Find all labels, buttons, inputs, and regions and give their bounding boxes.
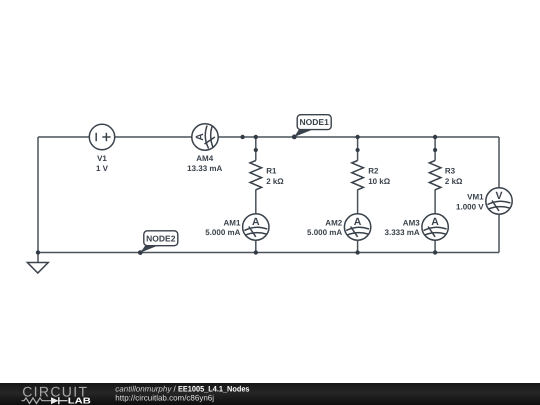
terminal dot: R2 top — [356, 148, 360, 152]
svg-text:A: A — [354, 216, 362, 228]
svg-text:V1: V1 — [97, 154, 107, 163]
svg-text:http://circuitlab.com/c86yn6j: http://circuitlab.com/c86yn6j — [115, 393, 214, 402]
svg-text:A: A — [431, 216, 439, 228]
svg-text:3.333 mA: 3.333 mA — [385, 228, 420, 237]
terminal dot: R1 top — [254, 148, 258, 152]
CircuitLab logo — [22, 384, 91, 405]
svg-text:AM1: AM1 — [224, 219, 241, 228]
resistor R2 — [352, 161, 364, 190]
terminal dot: R3 top — [433, 148, 437, 152]
svg-text:LAB: LAB — [68, 395, 91, 405]
wire: NODE1 to R2 — [357, 137, 359, 161]
svg-text:R3: R3 — [445, 167, 456, 176]
svg-text:VM1: VM1 — [467, 193, 484, 202]
junction: NODE1 at R2 branch — [355, 135, 359, 139]
junction: NODE1 at R3 branch — [433, 135, 437, 139]
wire: left rail — [37, 137, 39, 253]
svg-text:A: A — [252, 216, 260, 228]
svg-text:2 kΩ: 2 kΩ — [266, 177, 284, 186]
svg-text:A: A — [194, 133, 206, 141]
junction: wire joint at AM4 output — [240, 135, 244, 139]
svg-text:10 kΩ: 10 kΩ — [368, 177, 391, 186]
wire: bottom rail (NODE2 row) — [38, 252, 499, 254]
wire: top rail (V1 to NODE1 row) — [38, 136, 499, 138]
junction: NODE1 at R1 branch — [254, 135, 258, 139]
svg-text:cantillonmurphy / EE1005_L4.1_: cantillonmurphy / EE1005_L4.1_Nodes — [115, 385, 250, 394]
resistor R3 — [429, 161, 441, 190]
svg-text:13.33 mA: 13.33 mA — [187, 164, 222, 173]
wire: NODE1 to R3 — [434, 137, 436, 161]
svg-text:2 kΩ: 2 kΩ — [445, 177, 463, 186]
svg-text:R2: R2 — [368, 167, 379, 176]
svg-text:1.000 V: 1.000 V — [456, 202, 484, 211]
wire: NODE1 to R1 — [255, 137, 257, 161]
svg-text:NODE2: NODE2 — [146, 233, 176, 243]
resistor R1 — [250, 161, 262, 190]
voltmeter VM1 — [486, 188, 512, 214]
voltage source V1 — [89, 124, 114, 149]
svg-text:5.000 mA: 5.000 mA — [205, 228, 240, 237]
node NODE2 callout — [138, 231, 178, 255]
svg-text:AM4: AM4 — [196, 154, 213, 163]
svg-text:V: V — [495, 190, 502, 202]
svg-text:1 V: 1 V — [96, 164, 109, 173]
ammeter AM1 — [243, 214, 269, 240]
ground — [27, 263, 48, 274]
ammeter AM3 — [422, 214, 448, 240]
svg-text:AM2: AM2 — [325, 219, 342, 228]
wire: R3 to AM3 to bottom rail — [434, 190, 436, 253]
ammeter AM4 — [192, 124, 218, 150]
junction: ground node — [36, 250, 40, 254]
junction: NODE2 at AM2 branch — [355, 250, 359, 254]
svg-text:R1: R1 — [266, 167, 277, 176]
wire: R1 to AM1 to bottom rail — [255, 190, 257, 253]
junction: NODE2 at AM1 branch — [254, 250, 258, 254]
wire: right rail to VM1 — [498, 137, 500, 253]
junction: NODE2 at AM3 branch — [433, 250, 437, 254]
svg-text:5.000 mA: 5.000 mA — [307, 228, 342, 237]
svg-text:NODE1: NODE1 — [300, 117, 330, 127]
ammeter AM2 — [344, 214, 370, 240]
node NODE1 callout — [292, 115, 331, 140]
wire: ground stub — [37, 253, 39, 263]
svg-text:AM3: AM3 — [403, 219, 420, 228]
wire: R2 to AM2 to bottom rail — [357, 190, 359, 253]
